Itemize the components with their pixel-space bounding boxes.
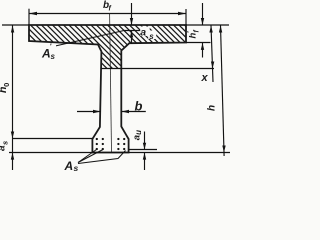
svg-text:x: x (201, 72, 209, 84)
svg-text:′: ′ (147, 23, 149, 32)
svg-text:u: u (134, 130, 143, 135)
svg-text:h: h (207, 105, 218, 111)
svg-text:s: s (149, 32, 154, 41)
svg-text:s: s (74, 163, 79, 173)
svg-text:s: s (1, 141, 10, 145)
svg-text:b: b (135, 99, 143, 114)
svg-text:s: s (51, 52, 56, 61)
svg-text:A: A (64, 159, 74, 173)
svg-text:0: 0 (2, 83, 11, 87)
svg-text:a: a (140, 27, 146, 39)
